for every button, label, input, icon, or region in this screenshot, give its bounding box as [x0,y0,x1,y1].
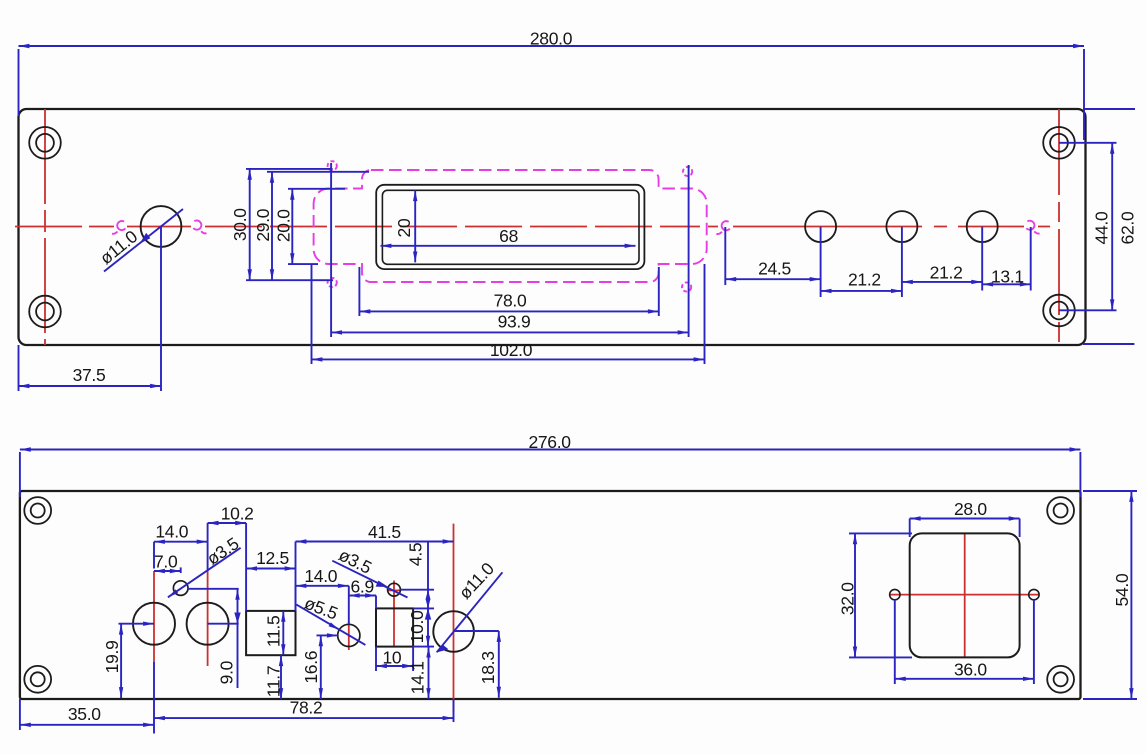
dim 37.5 [19,227,162,391]
top panel outline [19,109,1086,345]
mounting hole bottom-right [1043,295,1075,327]
dim 10.2 [208,503,254,611]
dim 102.0 [312,264,705,364]
dim 30.0 [230,169,333,280]
dim 10 [376,647,413,671]
dim 280.0 [19,29,1085,141]
mounting hole top-left [24,497,51,524]
break mark 4 [1026,221,1039,234]
mounting hole bottom-left [29,296,61,328]
svg-text:62.0: 62.0 [1118,211,1138,244]
svg-text:9.0: 9.0 [217,660,237,684]
centerline big hole (red) [453,524,455,712]
dim 4.5 [406,543,431,609]
svg-text:41.5: 41.5 [368,522,401,542]
leader D3.5 left [168,533,242,597]
mounting hole top-right [1043,127,1075,159]
svg-text:19.9: 19.9 [102,640,122,673]
svg-text:78.0: 78.0 [494,291,527,311]
LCD window inner [382,190,639,264]
TOP-PANEL-GROUP [15,29,1138,392]
dim 62.0 [1083,109,1138,344]
dim 7.0 [154,551,181,573]
svg-text:37.5: 37.5 [73,365,106,385]
switch hole 1 [805,211,836,242]
dim 276.0 [20,432,1081,497]
break mark 1 [112,221,125,234]
svg-text:44.0: 44.0 [1092,211,1112,244]
svg-text:93.9: 93.9 [498,312,531,332]
centerline hole D5.5 (red) [348,622,350,650]
dim 14.0 second [296,566,349,624]
bottom panel outline [20,491,1081,699]
svg-text:32.0: 32.0 [838,582,858,615]
mounting hole bottom-right [1047,666,1074,693]
dim 36.0 [895,600,1034,684]
dim 19.9 [102,624,154,698]
svg-text:10.2: 10.2 [221,503,254,523]
dim 6.9 [349,576,376,608]
svg-text:7.0: 7.0 [154,551,178,571]
dim 20.0 [273,189,345,264]
BOTTOM-PANEL-GROUP [20,432,1137,734]
svg-text:20.0: 20.0 [273,209,293,242]
centerline hole C1 (red) [153,571,155,662]
centerline hole D3.5 (red) [393,581,395,647]
dim 78.2 [154,662,454,734]
dim 35.0 [20,699,154,730]
svg-text:4.5: 4.5 [406,543,426,566]
centerline horizontal (red) [15,226,1050,228]
dim 14.1 [408,647,429,699]
dim 32.0 [838,533,913,657]
dim 20 (window height) [394,190,415,262]
dim 13.1 [982,227,1030,291]
svg-text:36.0: 36.0 [954,659,987,679]
svg-text:28.0: 28.0 [954,499,987,519]
svg-text:280.0: 280.0 [530,29,573,49]
LCD mount hole bottom-left (magenta) [328,278,337,287]
svg-text:54.0: 54.0 [1112,573,1132,606]
LCD mount hole bottom-right (magenta) [682,282,691,291]
mounting hole top-right [1047,497,1074,524]
svg-text:11.5: 11.5 [264,616,284,648]
dim 93.9 [331,163,688,337]
svg-text:30.0: 30.0 [230,208,250,241]
svg-text:35.0: 35.0 [68,704,101,724]
leader D11.0 bottom [437,558,503,652]
hole D11 [141,206,182,247]
svg-text:16.6: 16.6 [301,651,321,684]
LCD window outer [376,185,644,269]
small hole S1 [173,581,188,596]
slot 2 [376,608,413,646]
dim 21.2 first [821,227,902,297]
svg-text:11.7: 11.7 [264,666,284,698]
LCD mount hole top-right (magenta) [683,167,692,176]
svg-text:12.5: 12.5 [256,548,289,568]
dim 78.0 [359,267,658,316]
dim 16.6 [301,635,338,699]
svg-text:14.0: 14.0 [155,521,188,541]
svg-text:102.0: 102.0 [490,340,533,360]
dim 24.5 [725,227,820,297]
slot 1 [246,611,295,655]
svg-text:276.0: 276.0 [528,432,571,452]
mounting hole top-left [29,127,61,159]
dim 28.0 [910,499,1020,537]
dim 14.0 left [154,521,208,571]
big hole D11 [433,611,474,652]
svg-text:21.2: 21.2 [848,269,881,289]
LCD module outline (magenta dashed) [314,170,707,282]
dim 29.0 [253,172,369,280]
switch hole 2 [886,211,917,242]
dim 54.0 [1083,491,1137,699]
svg-text:18.3: 18.3 [478,651,498,684]
dim 12.5 [246,548,295,611]
centerline tick hole D3.5 (red) [388,589,401,591]
dim 11.5 [264,611,284,655]
svg-text:14.1: 14.1 [408,661,428,694]
hole D3.5 [388,583,401,596]
break mark 2 [193,220,206,233]
leader D11.0 [96,209,183,272]
dim 68 [381,226,636,246]
svg-text:78.2: 78.2 [290,698,323,718]
svg-text:10.0: 10.0 [407,610,427,643]
svg-text:21.2: 21.2 [930,263,963,283]
dim 11.7 [264,655,284,699]
svg-text:20: 20 [394,218,414,237]
centerline left vertical (red) [44,109,46,345]
centerline hole C2 (red) [207,571,209,666]
leader D5.5 [296,593,365,645]
svg-text:14.0: 14.0 [304,566,337,586]
LCD mount hole top-left (magenta) [328,161,337,170]
connector cutout [910,533,1020,657]
svg-text:10: 10 [382,648,401,668]
mounting hole bottom-left [24,666,51,693]
centerline right vertical (red) [1058,109,1060,345]
connector screw hole right [1029,589,1039,599]
hole C2 [187,603,229,645]
svg-text:13.1: 13.1 [991,266,1024,286]
connector cross horizontal (red) [890,594,1039,596]
svg-text:68: 68 [499,226,518,246]
dim 10.0 [400,542,434,647]
dim 18.3 [454,631,499,698]
svg-text:24.5: 24.5 [758,259,791,279]
dim 21.2 second [902,227,982,291]
svg-text:29.0: 29.0 [253,208,273,241]
dim 41.5 [296,522,454,569]
connector screw hole left [890,589,900,599]
dim 44.0 [1059,143,1117,310]
connector cross vertical (red) [964,533,966,657]
dim 9.0 [187,589,240,688]
leader D3.5 right [332,545,407,598]
hole D5.5 [338,624,360,646]
break mark 3 [716,221,729,234]
switch hole 3 [967,211,998,242]
hole C1 [133,603,175,645]
